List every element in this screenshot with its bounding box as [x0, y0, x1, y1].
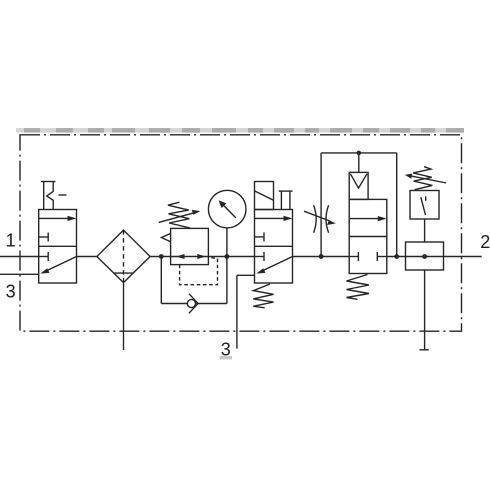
valve V1 exhaust path arrow: [40, 257, 76, 274]
valve V2 manual override: [279, 191, 293, 209]
solenoid valve V2 body: [255, 210, 293, 284]
soft-start valve V3 body: [349, 199, 387, 273]
distribution block: [406, 242, 444, 270]
node C (throttle branch junction): [319, 254, 324, 259]
soft-start valve V3 pilot check box: [349, 172, 368, 199]
pilot loop top wire: [321, 152, 397, 154]
port 1 line: [0, 256, 39, 258]
regulator R1 secondary vent dashed box: [180, 258, 218, 285]
filter F1: [97, 230, 150, 283]
regulator R1 adjustment arrow: [159, 210, 201, 223]
svg-text:3: 3: [6, 282, 16, 302]
wire valve V3 to port 2: [387, 256, 482, 258]
filter drain line: [123, 283, 125, 350]
throttle valve adjustment arrow: [304, 211, 336, 225]
node B (regulator outlet junction): [225, 254, 230, 259]
pressure switch S1 contact box: [410, 191, 439, 220]
port 3 line: [0, 273, 39, 275]
valve V3 blocked port (right): [377, 252, 387, 261]
valve V1 manual detent actuator: [41, 182, 67, 210]
shut-off valve V1 body: [39, 210, 77, 284]
check valve C1: [187, 294, 198, 314]
wire valve V1 to filter: [77, 256, 97, 258]
pressure gauge G1 stem: [226, 228, 228, 257]
valve V2 exhaust line to port 3: [237, 275, 255, 348]
check valve bypass: bottom wire: [161, 303, 227, 305]
pilot stub wire: [358, 153, 360, 173]
node A (filter outlet junction): [159, 254, 164, 259]
pressure gauge G1: [208, 190, 246, 228]
node D (pilot takeoff): [357, 151, 362, 156]
svg-text:2: 2: [480, 232, 490, 252]
throttle branch riser: [320, 153, 322, 257]
pressure switch S1 adjustment spring: [413, 167, 432, 190]
regulator R1 body: [171, 228, 209, 264]
throttle valve T1: [314, 205, 329, 232]
wire filter to regulator and through to valve V2: [150, 256, 254, 258]
valve V3 return spring: [347, 275, 370, 300]
pilot loop right wire: [396, 153, 398, 257]
drain end bar: [420, 349, 429, 351]
svg-text:1: 1: [6, 230, 16, 250]
valve V1 open-path arrow: [39, 216, 77, 221]
block drain line: [424, 270, 426, 350]
node E (junction before distribution block): [394, 254, 399, 259]
valve V2 exhaust path arrow: [256, 257, 292, 274]
node F (block center): [422, 254, 427, 259]
check valve bypass: right riser wire: [226, 257, 228, 304]
valve V2 open-path arrow: [255, 216, 293, 221]
enclosure dash-dot border: [20, 135, 462, 331]
regulator R1 flow arrows: [176, 254, 206, 259]
regulator R1 adjustment spring: [168, 202, 190, 228]
valve V3 blocked port (left): [349, 252, 358, 261]
valve V2 blocked port (bottom field): [255, 252, 265, 261]
valve V2 solenoid: [255, 182, 274, 210]
pressure switch S1 stem: [424, 219, 426, 242]
check valve bypass: left drop wire: [160, 257, 162, 304]
mounting rail hatch bar: [16, 128, 464, 133]
gray smudge under label 3: [220, 356, 233, 360]
valve V1 blocked port (bottom field): [39, 252, 49, 261]
pressure switch S1 adjustment arrow: [405, 174, 446, 184]
valve V3 open-path arrow: [349, 216, 387, 221]
wire valve V2 to soft-start valve V3: [293, 256, 350, 258]
valve V2 blocked port (top field): [255, 232, 265, 241]
valve V2 return spring: [253, 284, 273, 308]
valve V1 blocked port (top field): [39, 233, 49, 242]
regulator R1 relief triangle: [161, 233, 170, 241]
